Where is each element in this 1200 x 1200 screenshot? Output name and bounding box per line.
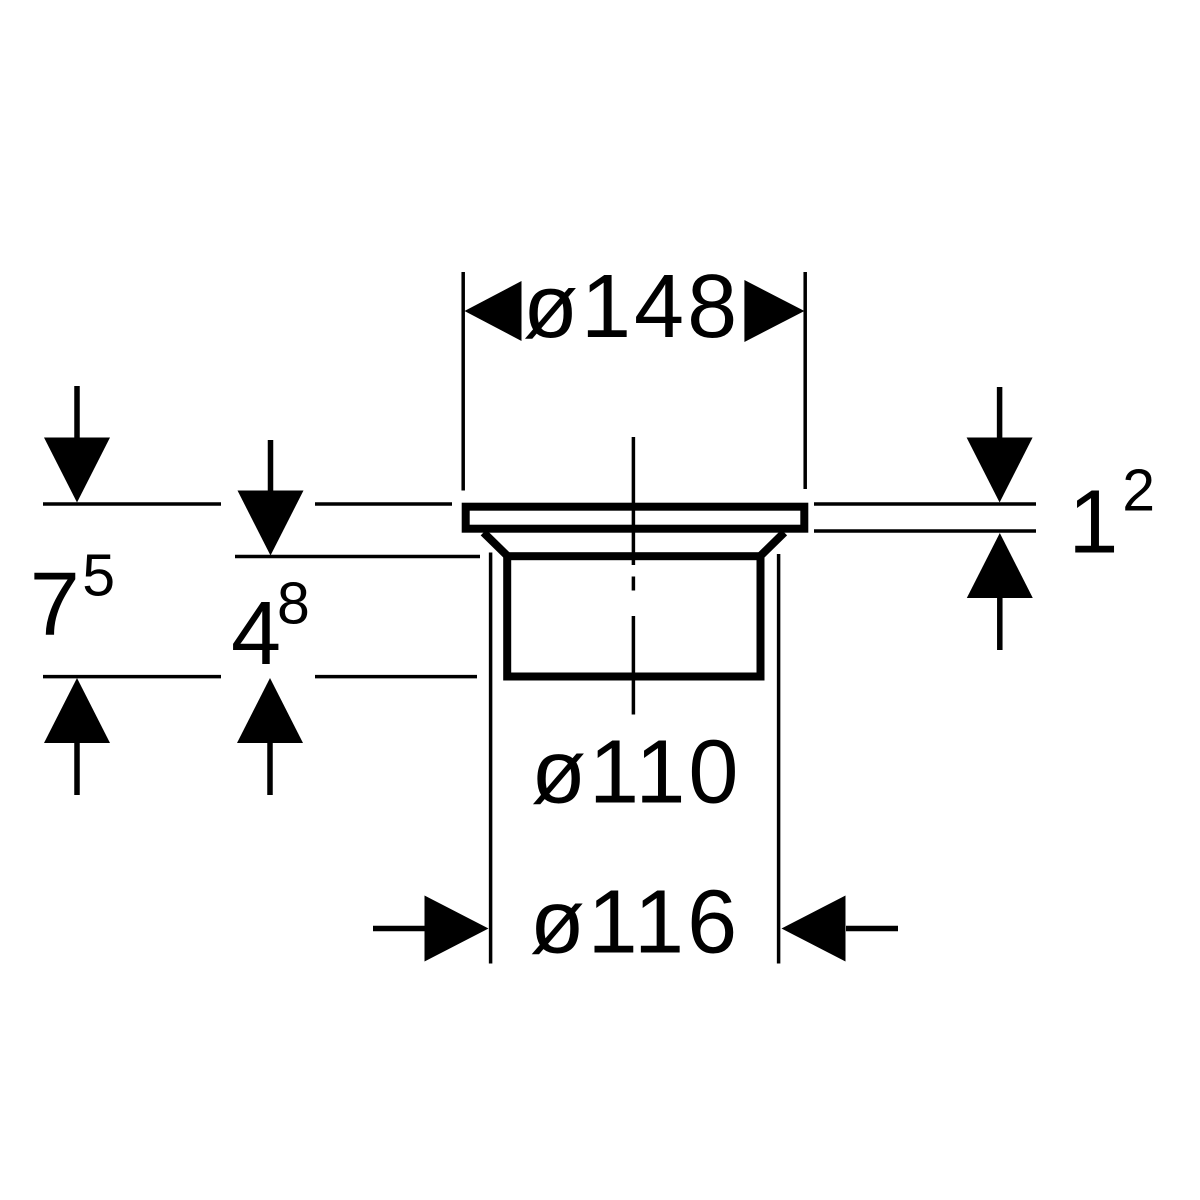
ø148 extension line left — [461, 272, 465, 491]
svg-text:ø110: ø110 — [531, 723, 741, 823]
svg-text:1: 1 — [1068, 473, 1118, 573]
svg-text:2: 2 — [1122, 458, 1155, 524]
svg-text:ø116: ø116 — [530, 873, 740, 973]
dim 1.2 label — [1068, 458, 1155, 573]
ø116 arrow left — [373, 896, 489, 962]
dim 4.8 label — [231, 570, 310, 684]
level line top-of-flange left segment 1 — [43, 502, 221, 506]
taper left slant — [484, 533, 509, 557]
dim 7.5 bottom arrow — [44, 678, 110, 795]
dim 7.5 top arrow — [44, 386, 110, 503]
level line top-of-pipe (4.8 upper) — [235, 555, 480, 559]
ø116 extension line left — [489, 553, 493, 964]
ø148 extension line right — [803, 272, 807, 489]
ø116 arrow right — [782, 896, 899, 962]
svg-text:7: 7 — [30, 555, 80, 655]
dim 1.2 bottom arrow — [967, 533, 1033, 650]
level line top-of-flange right (1.2 upper) — [814, 502, 1036, 506]
svg-text:8: 8 — [277, 570, 310, 636]
flange plate (top body) — [466, 507, 805, 529]
ø148 arrow right — [744, 280, 804, 342]
pipe body (cylinder) — [507, 556, 760, 676]
ø110 label — [531, 723, 741, 823]
level line bottom-of-pipe segment 2 — [315, 675, 477, 679]
dim 4.8 top arrow — [238, 440, 304, 556]
svg-text:4: 4 — [231, 584, 281, 684]
dim 4.8 bottom arrow — [237, 678, 303, 795]
svg-text:ø148: ø148 — [523, 257, 740, 357]
ø116 label — [530, 873, 740, 973]
ø116 extension line right — [777, 554, 781, 964]
ø148 label — [523, 257, 740, 357]
dim 1.2 top arrow — [967, 387, 1033, 503]
dim 7.5 label — [30, 543, 115, 655]
level line bottom-of-pipe segment 1 — [43, 675, 221, 679]
svg-text:5: 5 — [82, 543, 115, 609]
level line top-of-flange left segment 2 — [315, 502, 452, 506]
taper right slant — [760, 533, 785, 557]
level line bottom-of-flange right (1.2 lower) — [814, 529, 1036, 533]
centerline — [632, 437, 636, 715]
ø148 arrow left — [465, 281, 522, 341]
